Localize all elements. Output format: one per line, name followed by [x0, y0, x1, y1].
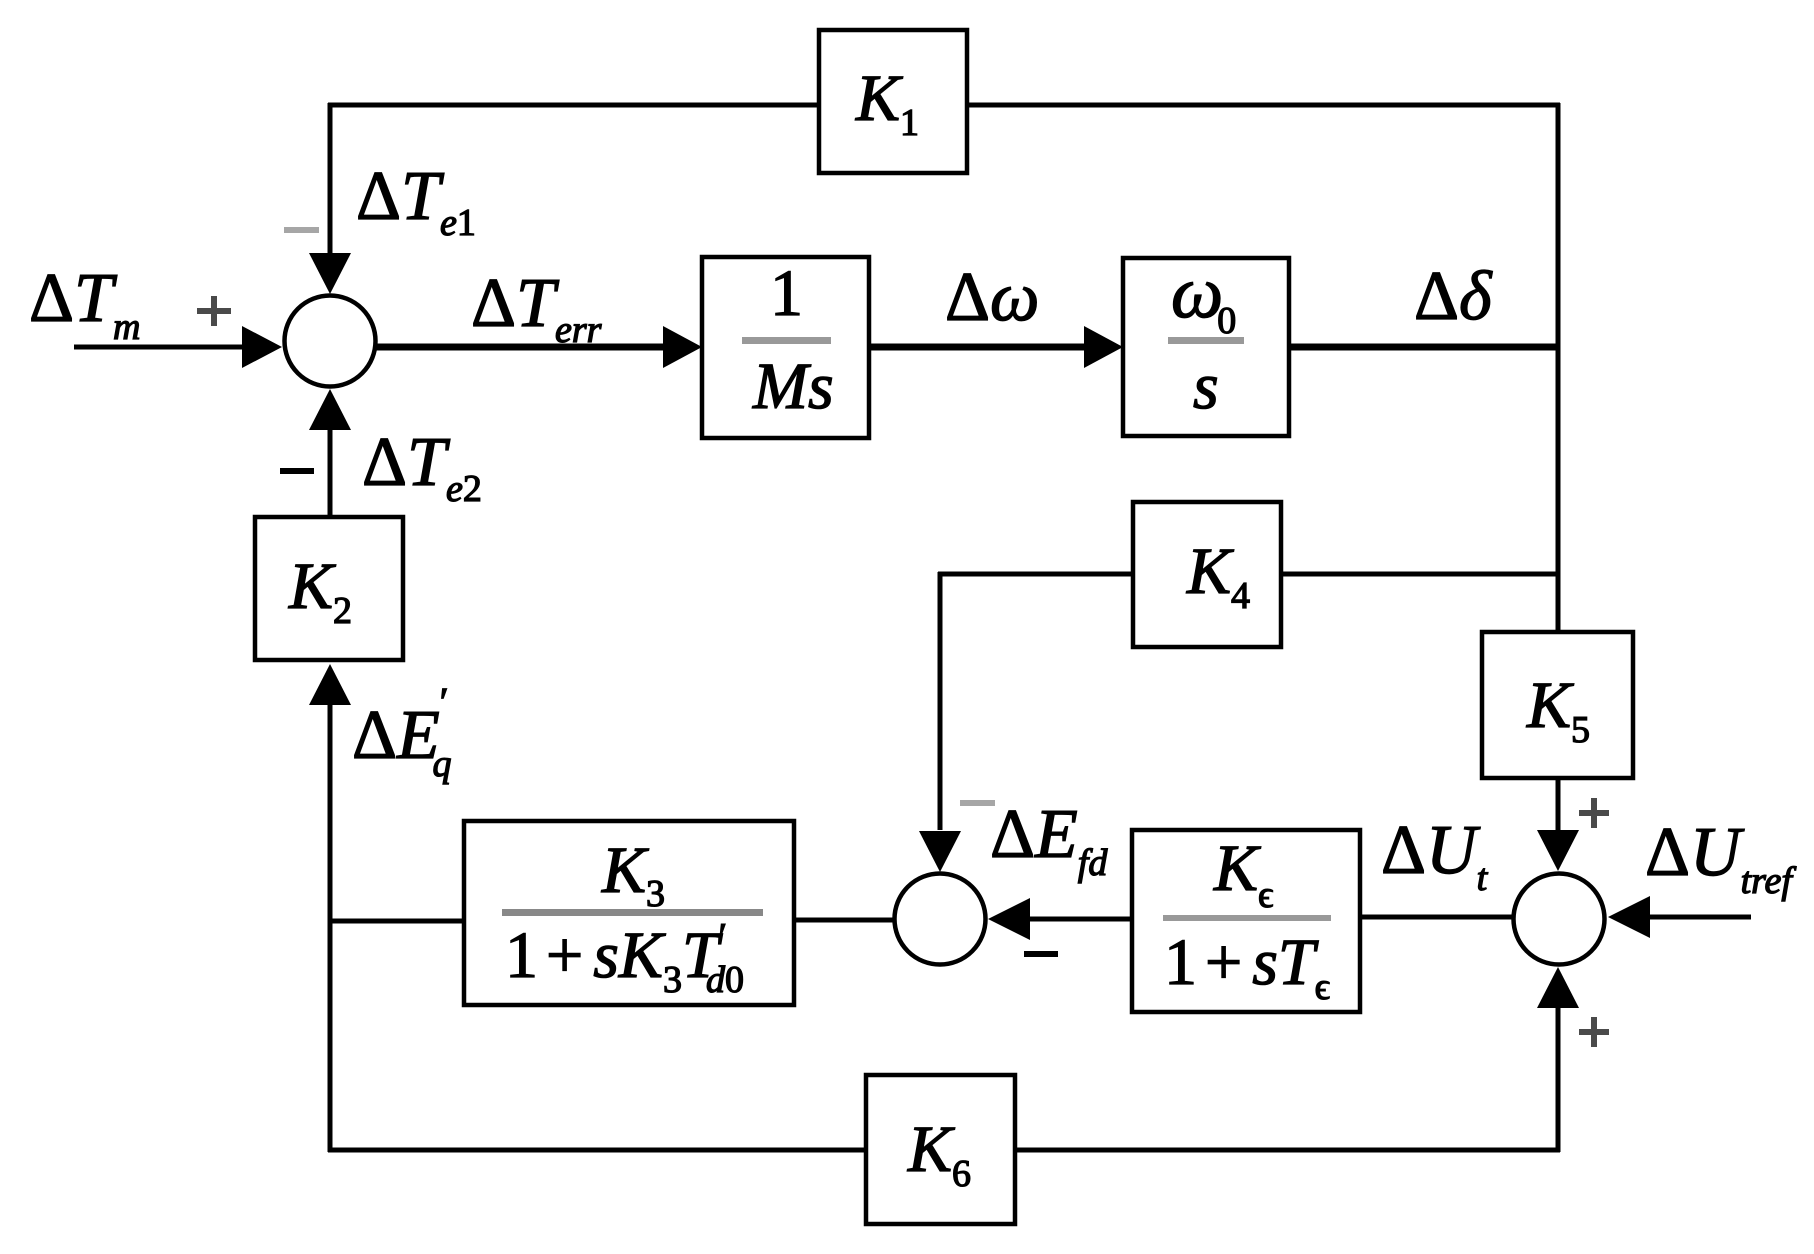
arrowhead into S1 top (K1 minus input): [309, 253, 351, 294]
wire K2 top to S1: [328, 430, 333, 519]
wire bus to K4: [1279, 572, 1560, 577]
label minus sign of Te2 input: [280, 468, 314, 474]
wire w0/s to right bus: [1289, 344, 1560, 351]
summing junction S2: [895, 874, 986, 965]
arrowhead into w0/s: [1084, 326, 1123, 368]
wire 1/Ms to w0/s: [869, 344, 1087, 351]
wire Tm input: [74, 345, 246, 350]
block K5: [1482, 632, 1633, 778]
label plus sign of Tm input: [197, 296, 231, 326]
svg-text:Δω: Δω: [945, 259, 1039, 336]
label plus sign of K5 input: [1579, 798, 1609, 828]
svg-text:Ms: Ms: [752, 350, 834, 423]
wire K1 feedback top-left segment: [328, 103, 820, 108]
svg-text:1: 1: [770, 257, 803, 330]
wire up from bottom feedback to S3: [1556, 1006, 1561, 1152]
summing junction S1: [285, 296, 376, 387]
wire Utref input: [1649, 915, 1751, 920]
wire S1 to 1/Ms: [376, 344, 668, 351]
wire K1 feedback top-right segment: [966, 103, 1560, 108]
wire bottom feedback left segment: [328, 1148, 868, 1153]
block K2: [255, 517, 403, 660]
arrowhead into S3 bottom: [1537, 967, 1579, 1008]
arrowhead into S3 top: [1537, 830, 1579, 871]
wire drop from K1 line down to summing junction S1: [328, 103, 333, 256]
label plus sign of K6 input: [1579, 1017, 1609, 1047]
label minus above Efd: [960, 800, 995, 806]
block Keps exciter: [1132, 830, 1360, 1012]
arrowhead into S2 right: [988, 898, 1030, 940]
wire K5 down to voltage sum S3: [1556, 778, 1561, 832]
wire K6 to right segment: [1013, 1148, 1560, 1153]
block K4: [1133, 502, 1281, 647]
block K6: [866, 1075, 1015, 1224]
svg-text:Δδ: Δδ: [1414, 258, 1493, 335]
wire S2 to K3: [792, 918, 894, 923]
arrowhead into K2 bottom: [309, 664, 351, 705]
wire K3 to left bus: [332, 919, 466, 924]
wire left vertical bus dEq: [328, 700, 333, 1152]
block K3: [464, 821, 794, 1005]
wire right vertical bus: [1556, 103, 1561, 634]
summing junction S3: [1514, 874, 1605, 965]
block K1: [819, 30, 967, 173]
arrowhead into S3 right: [1608, 896, 1650, 938]
block 1/Ms: [702, 257, 869, 438]
arrowhead into 1/Ms: [663, 326, 702, 368]
svg-text:s: s: [1193, 350, 1219, 423]
wire K4 to drop node: [938, 572, 1135, 577]
arrowhead into S2 top: [919, 831, 961, 872]
svg-text:ΔUt: ΔUt: [1381, 812, 1489, 899]
label minus sign of Te1 input: [284, 227, 319, 233]
arrowhead into S1 bottom: [309, 389, 351, 430]
label minus below Keps arrow: [1024, 951, 1058, 957]
wire drop to Efd summing junction: [938, 572, 943, 830]
block w0/s: [1123, 252, 1289, 436]
arrowhead into S1 left: [242, 326, 282, 368]
wire Keps to S2: [1030, 917, 1134, 922]
wire S3 to Keps block: [1360, 915, 1513, 920]
